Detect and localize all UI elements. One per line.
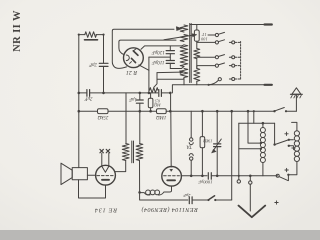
tube RE134 heater stubs xyxy=(101,153,103,166)
resistor (top left, with bar) xyxy=(79,34,85,36)
svg-text:MΩ: MΩ xyxy=(154,103,162,108)
wire transformer prim top xyxy=(125,93,127,144)
wire cap bottom xyxy=(170,67,184,69)
wiper hook xyxy=(209,81,218,85)
wire speaker to grid xyxy=(87,174,95,176)
wire trafo L bottom xyxy=(115,161,126,172)
svg-text:TA: TA xyxy=(186,144,192,149)
wire link down xyxy=(238,123,240,176)
ground lead xyxy=(249,176,251,181)
coil W1 xyxy=(180,25,188,32)
plus mark xyxy=(285,133,288,135)
capacitor 110pF xyxy=(166,60,174,62)
mains coil right xyxy=(294,131,299,136)
wire trafo R bottom xyxy=(139,161,141,193)
contact right xyxy=(229,65,231,67)
svg-text:2μF: 2μF xyxy=(88,62,97,67)
tube R21 grid bar xyxy=(132,58,136,62)
resistor 100 box xyxy=(196,25,198,31)
wire xyxy=(196,59,198,69)
wire to bus xyxy=(231,111,233,200)
wire lower xyxy=(140,192,188,200)
svg-text:1μF: 1μF xyxy=(128,96,137,101)
node xyxy=(169,92,172,95)
grid leak resistor xyxy=(150,88,159,93)
wire coil R top xyxy=(292,122,297,130)
node xyxy=(78,110,81,113)
wire coil R bottom xyxy=(288,162,297,175)
wire feedback loop outer xyxy=(112,29,174,68)
terminal circle 1 xyxy=(238,176,240,180)
node xyxy=(139,110,142,113)
resistor zz1 xyxy=(194,49,200,59)
plus mark xyxy=(285,169,288,171)
hum coil xyxy=(159,192,165,195)
resistor 25k box xyxy=(98,109,109,114)
tube RE134 filament bar xyxy=(102,179,109,181)
node xyxy=(201,110,204,113)
node xyxy=(148,92,151,95)
resistor 0.5M box xyxy=(150,93,152,98)
node xyxy=(169,110,172,113)
wire grid REN904 xyxy=(170,93,172,111)
wire mid cap rail xyxy=(149,56,170,58)
tube REN904 cathode bar xyxy=(167,179,175,181)
capacitor 120pF xyxy=(169,46,171,51)
coil W2 xyxy=(180,35,188,42)
wire coil top stub xyxy=(262,123,264,127)
rail bottom xyxy=(172,85,265,93)
capacitor 1uF xyxy=(139,93,141,100)
bus wire xyxy=(79,110,98,112)
transformer core xyxy=(131,141,133,163)
contact row4 xyxy=(197,66,216,69)
svg-text:2μF: 2μF xyxy=(84,96,93,101)
contact row1 xyxy=(208,34,215,36)
node xyxy=(149,110,152,113)
wire tap vertical xyxy=(154,73,157,88)
node xyxy=(139,92,142,95)
tube R21 anode bar xyxy=(133,51,138,55)
capacitor 2uF (cathode) xyxy=(188,197,190,204)
contact row2 xyxy=(197,41,216,43)
variable capacitor xyxy=(216,111,218,144)
node xyxy=(201,175,204,178)
capacitor 1000pF xyxy=(207,173,209,179)
plus mark xyxy=(292,147,295,149)
svg-text:REN1104 (REN904): REN1104 (REN904) xyxy=(141,206,199,213)
wire tap arrow xyxy=(157,71,181,74)
contact row3 xyxy=(197,56,216,58)
tube RE134 filament V xyxy=(102,166,109,172)
wire coil bottom xyxy=(262,163,264,176)
transformer winding R xyxy=(136,144,143,161)
x mark xyxy=(106,149,110,153)
tube REN904 envelope xyxy=(162,167,182,187)
capacitor 2uF (rail) xyxy=(86,90,88,97)
node xyxy=(260,142,262,144)
earth symbol xyxy=(295,94,297,111)
arrow variable coupling xyxy=(164,35,194,40)
resistor 1M box (bus) xyxy=(157,109,167,114)
svg-text:100: 100 xyxy=(200,37,207,42)
grid capacitor xyxy=(149,92,158,94)
rail top xyxy=(190,24,266,26)
node xyxy=(102,92,105,95)
TA jack xyxy=(190,111,192,138)
resistor 1M box vert xyxy=(201,111,203,136)
wire W4 to rail xyxy=(183,78,185,85)
selector switch lower xyxy=(276,174,279,177)
plus mark xyxy=(275,202,278,204)
wire tap2 xyxy=(239,148,261,150)
wire stub xyxy=(253,111,255,123)
wire xyxy=(196,81,198,85)
node xyxy=(216,175,219,178)
svg-text:2μF: 2μF xyxy=(183,193,191,198)
transformer winding L xyxy=(122,144,129,161)
svg-text:1MΩ: 1MΩ xyxy=(202,138,212,143)
capacitor 2uF (R21 cathode) xyxy=(99,62,108,64)
svg-text:R 21: R 21 xyxy=(126,69,138,75)
wire xyxy=(103,35,105,64)
wire cathode xyxy=(164,186,172,192)
node xyxy=(262,122,265,125)
coil W4 xyxy=(180,69,188,78)
core xyxy=(189,24,191,83)
wire anode to caps xyxy=(141,45,184,50)
wire left vertical xyxy=(78,35,80,168)
svg-text:1MΩ: 1MΩ xyxy=(156,114,167,119)
tube RE134 grid xyxy=(97,175,114,177)
svg-text:120pF: 120pF xyxy=(151,49,165,54)
svg-text:RE 134: RE 134 xyxy=(94,207,118,214)
wire tap2 xyxy=(157,78,184,80)
tube REN904 grid tip xyxy=(170,169,173,171)
node xyxy=(78,92,81,95)
wire tap1 feed xyxy=(248,111,261,143)
node xyxy=(247,110,250,113)
arrow head (coupling) xyxy=(176,27,182,31)
anode rail xyxy=(181,175,207,177)
switch (mains) xyxy=(207,199,209,201)
tube RE134 envelope xyxy=(96,165,116,185)
resistor zz2 xyxy=(194,68,200,81)
gang dashed line xyxy=(240,42,242,80)
tube R21 envelope xyxy=(123,48,143,68)
contact right xyxy=(229,78,231,80)
bus switch xyxy=(273,110,275,112)
x mark xyxy=(100,149,104,153)
wire rail A xyxy=(79,92,87,94)
wire loop inner xyxy=(119,40,176,55)
speaker xyxy=(61,163,72,184)
bus wire xyxy=(108,110,157,112)
tube REN904 grid xyxy=(164,175,180,177)
bus wire xyxy=(166,110,274,112)
contact right xyxy=(229,56,231,58)
node xyxy=(138,191,141,194)
ground chevron xyxy=(239,206,266,218)
node xyxy=(208,84,210,86)
selector switch upper xyxy=(274,123,276,144)
terminal xyxy=(265,84,272,86)
coil W3 xyxy=(180,45,188,67)
contact right xyxy=(229,41,231,43)
terminal xyxy=(265,23,272,25)
node xyxy=(190,175,193,178)
node xyxy=(260,148,262,150)
svg-text:1T: 1T xyxy=(201,32,206,37)
svg-text:25kΩ: 25kΩ xyxy=(97,114,108,119)
node xyxy=(230,110,233,113)
node xyxy=(249,175,252,178)
mains coil left xyxy=(260,128,265,133)
svg-text:NR II W: NR II W xyxy=(12,10,23,52)
wire speaker bottom xyxy=(79,180,106,198)
wire tube cathode xyxy=(139,65,149,93)
svg-text:1000pF: 1000pF xyxy=(198,179,212,184)
svg-text:110pF: 110pF xyxy=(151,59,165,64)
wire top link xyxy=(239,122,275,124)
node xyxy=(216,110,219,113)
